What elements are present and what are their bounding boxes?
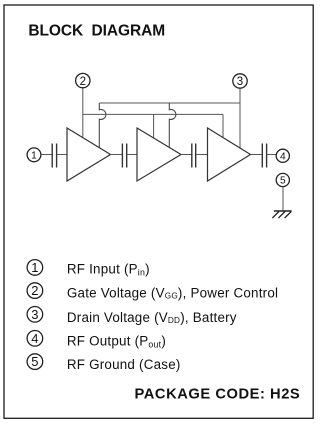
wire node1 to C1	[41, 154, 52, 156]
wire C1 to amp A1	[57, 154, 67, 156]
svg-text:5: 5	[31, 354, 38, 369]
svg-text:BLOCK DIAGRAM: BLOCK DIAGRAM	[28, 23, 165, 40]
legend key 1 circle	[27, 260, 43, 276]
op-amp stage A2	[137, 128, 181, 181]
legend key 3 circle	[27, 307, 43, 323]
wire gate drop to A2	[153, 114, 155, 138]
wire A3 to C4	[251, 154, 263, 156]
wire A2 to C3	[181, 154, 192, 156]
capacitor C4	[262, 144, 266, 168]
wire gate bus from node2	[83, 88, 223, 138]
svg-text:1: 1	[31, 150, 37, 161]
svg-text:3: 3	[237, 76, 243, 88]
legend key 5 circle	[27, 354, 43, 370]
node 2 (gate voltage terminal)	[76, 73, 90, 87]
svg-text:PACKAGE CODE: H2S: PACKAGE CODE: H2S	[135, 387, 301, 403]
svg-text:1: 1	[31, 260, 38, 275]
op-amp stage A1	[67, 128, 111, 181]
svg-text:RF Output (Pout): RF Output (Pout)	[67, 334, 166, 350]
svg-text:Gate Voltage (VGG), Power Cont: Gate Voltage (VGG), Power Control	[67, 286, 278, 301]
legend key 2 circle	[27, 283, 43, 299]
ground (chassis)	[272, 211, 291, 218]
node 4 (RF output terminal)	[276, 149, 289, 162]
svg-text:5: 5	[280, 176, 286, 187]
node 3 (drain voltage terminal)	[233, 74, 247, 88]
wire drain drop to A1 with hop over gate bus	[99, 103, 106, 148]
wire gate drop to A3	[222, 114, 224, 138]
svg-text:Drain Voltage (VDD), Battery: Drain Voltage (VDD), Battery	[67, 310, 237, 325]
svg-text:4: 4	[31, 331, 38, 346]
node 1 (RF input terminal)	[27, 148, 41, 162]
svg-text:RF Ground (Case): RF Ground (Case)	[67, 357, 181, 372]
wire C2 to A2	[127, 154, 137, 156]
op-amp stage A3	[208, 128, 251, 181]
wire drain bus	[99, 102, 240, 104]
svg-text:2: 2	[80, 76, 86, 88]
wire drain drop to A2 with hop over gate bus	[169, 103, 176, 147]
capacitor C3	[192, 144, 196, 168]
wire node5 to ground	[282, 187, 284, 211]
capacitor C1	[52, 144, 56, 168]
wire C4 to node4	[267, 154, 277, 156]
wire node3 drop to A3 drain	[239, 88, 241, 148]
wire C3 to A3	[196, 154, 208, 156]
capacitor C2	[122, 144, 126, 168]
svg-text:RF Input (Pin): RF Input (Pin)	[67, 261, 150, 277]
node 5 (RF ground terminal)	[276, 173, 289, 186]
legend key 4 circle	[27, 331, 43, 347]
wire A1 to C2	[111, 154, 123, 156]
svg-text:4: 4	[280, 151, 286, 162]
svg-text:2: 2	[31, 283, 38, 298]
svg-text:3: 3	[31, 307, 38, 322]
